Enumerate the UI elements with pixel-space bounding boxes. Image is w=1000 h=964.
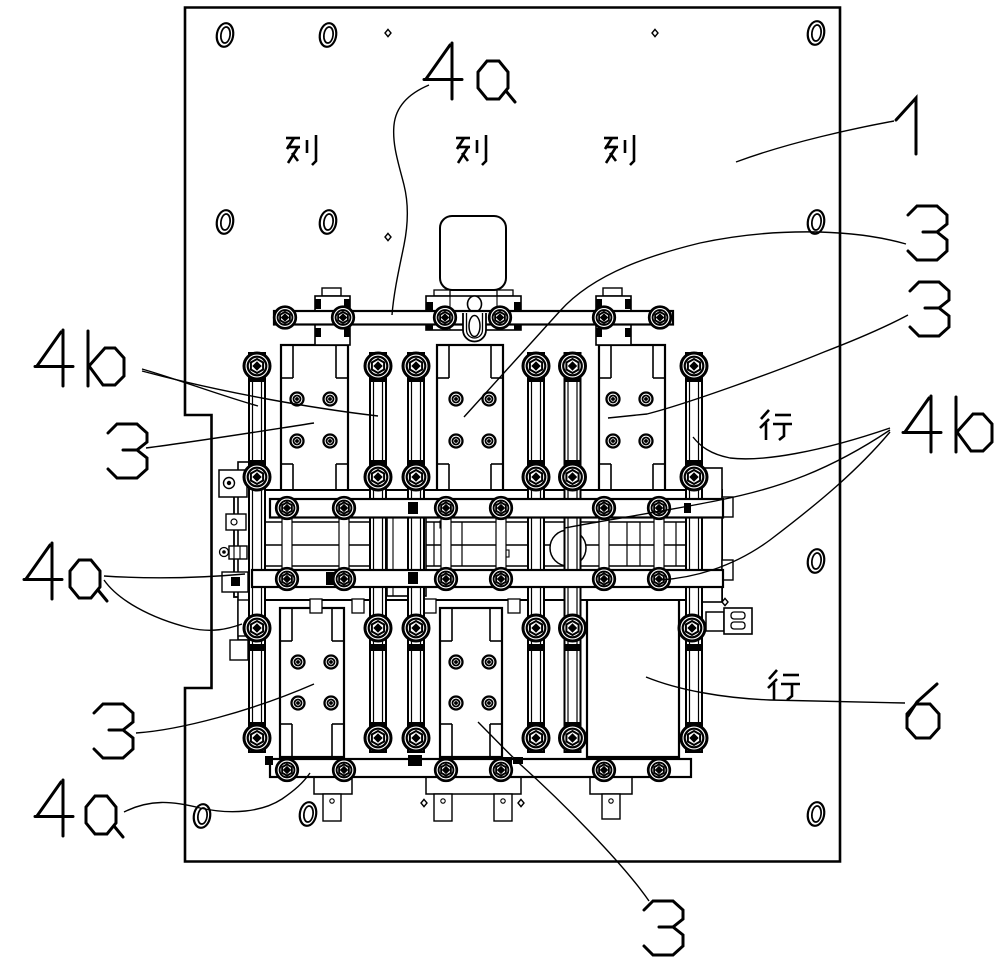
screw head (607, 393, 620, 406)
label 3 second (910, 282, 949, 336)
bolt fastener (593, 568, 615, 590)
bolt fastener (490, 497, 512, 519)
bolt 4a fastener (681, 464, 707, 490)
bolt fastener (434, 307, 456, 329)
leaders to 4b left (142, 369, 258, 406)
bolt 4a fastener (365, 615, 391, 641)
bolt fastener (435, 497, 457, 519)
leaders to 4a left (104, 574, 245, 578)
bottom bracket right (590, 777, 632, 819)
small stop blocks (440, 521, 509, 557)
screw head (640, 435, 653, 448)
label 3 first (908, 206, 947, 260)
leader to 3 lower-left (136, 684, 314, 733)
plate hole (807, 210, 825, 234)
block 6 (587, 589, 679, 757)
lead screw nose (463, 313, 486, 342)
screw head (324, 435, 337, 448)
small locating mark (722, 598, 728, 605)
screw head (324, 393, 337, 406)
leaders to 4b right (693, 428, 890, 459)
bolt 4a fastener (523, 725, 549, 751)
bolt fastener (649, 307, 671, 329)
label 4a left (24, 543, 62, 599)
screw head (607, 435, 620, 448)
plate hole (319, 23, 337, 47)
bolt fastener (648, 497, 670, 519)
bolt fastener (593, 759, 615, 781)
bolt fastener (648, 568, 670, 590)
leader to 4a top (392, 85, 429, 315)
screw head (292, 697, 305, 710)
bottom bracket middle (426, 777, 521, 821)
bolt fastener (274, 307, 296, 329)
motor body (440, 216, 506, 290)
screw head (325, 656, 338, 669)
vertical rail 4b x=257 (249, 353, 265, 752)
base plate 1 (185, 8, 840, 862)
bolt 4a fastener (403, 353, 429, 379)
carriage right cap (694, 468, 733, 602)
carriage hole (550, 530, 586, 566)
top row rail 4a (274, 311, 673, 325)
bolt 4a fastener (244, 353, 270, 379)
bolt fastener (489, 307, 511, 329)
leader to 3 left (146, 423, 314, 448)
bolt 4a fastener (365, 353, 391, 379)
bolt 4a fastener (681, 353, 707, 379)
mounting plate 3 (P2) (437, 345, 503, 497)
plate hole (319, 210, 337, 234)
plate hole (216, 210, 234, 234)
bolt 4a fastener (560, 725, 586, 751)
junction marks (265, 502, 691, 766)
character xing (row) (768, 670, 800, 700)
bottom bracket left (314, 777, 352, 821)
label 6 (907, 684, 939, 738)
upper middle rail 4a (270, 499, 723, 518)
bolt 4a fastener (679, 615, 705, 641)
bolt fastener (333, 568, 355, 590)
plate hole (807, 802, 825, 826)
leader to 3 (second) (608, 315, 908, 418)
screw head (640, 393, 653, 406)
screw head (483, 656, 496, 669)
bolt fastener (435, 568, 457, 590)
plate hole (807, 21, 825, 45)
label 4a top (424, 43, 462, 99)
screw head (450, 435, 463, 448)
leader to 4a bottom (124, 773, 310, 812)
carriage slide body (234, 462, 722, 640)
left tab (226, 514, 246, 530)
lower middle rail 4a (252, 570, 723, 587)
vertical rail 4b x=572.5 (565, 353, 581, 752)
top rail bracket left (315, 288, 350, 345)
label 3 left (108, 424, 147, 478)
bolt fastener (593, 307, 615, 329)
screw head (483, 697, 496, 710)
screw head (292, 656, 305, 669)
connector plug (706, 608, 752, 634)
bolt fastener (332, 307, 354, 329)
bolt 4a fastener (244, 615, 270, 641)
label 3 bottom (644, 901, 683, 955)
label 1 (896, 98, 916, 154)
plate hole (299, 802, 317, 826)
top rail bracket right (596, 288, 631, 345)
bolt fastener (276, 497, 298, 519)
bolt fastener (490, 759, 512, 781)
screw head (450, 656, 463, 669)
vertical rail 4b x=378 (370, 353, 386, 752)
left lower tab 4a (222, 572, 248, 592)
bolt fastener (333, 497, 355, 519)
guide posts (282, 517, 664, 571)
bolt 4a fastener (560, 615, 586, 641)
bolt fastener (333, 759, 355, 781)
mounting plate 3 (L2) (440, 608, 502, 757)
small locating mark (421, 799, 427, 806)
leader to 1 (736, 121, 894, 162)
screw head (450, 697, 463, 710)
bolt fastener (276, 568, 298, 590)
character xing (row) (760, 410, 792, 440)
lower plate brackets (310, 599, 520, 613)
leader to 3 bottom (478, 722, 649, 901)
bolt 4a fastener (523, 464, 549, 490)
plate hole (193, 804, 211, 828)
bolt 4a fastener (365, 464, 391, 490)
bolt 4a fastener (560, 353, 586, 379)
small locating mark (385, 233, 391, 240)
bolt 4a fastener (365, 725, 391, 751)
character lie (column) (604, 135, 634, 165)
plate hole (807, 549, 825, 573)
small locating mark (385, 29, 391, 36)
screw head (450, 393, 463, 406)
character lie (column) (456, 135, 486, 165)
plate hole (216, 23, 234, 47)
small locating mark (518, 799, 524, 806)
bolt 4a fastener (244, 725, 270, 751)
bolt fastener (276, 759, 298, 781)
bolt 4a fastener (403, 615, 429, 641)
bolt fastener (435, 759, 457, 781)
leader to 3 (first) (464, 232, 906, 417)
label 4a bottom (35, 780, 73, 836)
bolt 4a fastener (403, 464, 429, 490)
vertical rail 4b x=536 (528, 353, 544, 752)
bottom row rail 4a (270, 759, 691, 777)
vertical rail 4b x=416 (408, 353, 424, 752)
motor mount bracket (426, 290, 521, 330)
bolt 4a fastener (403, 725, 429, 751)
bolt 4a fastener (560, 464, 586, 490)
screw head (483, 435, 496, 448)
small locating mark (652, 29, 658, 36)
left screw (220, 546, 248, 559)
character lie (column) (286, 135, 316, 165)
mounting plate 3 (P1) (281, 345, 348, 497)
bolt fastener (648, 759, 670, 781)
mounting plate 3 (L1) (280, 608, 344, 757)
bolt 4a fastener (523, 615, 549, 641)
screw head (325, 697, 338, 710)
label 4b left (35, 330, 73, 386)
bolt fastener (490, 568, 512, 590)
left lower bracket (230, 600, 254, 660)
left clamp block 4a (219, 470, 247, 497)
bolt 4a fastener (681, 725, 707, 751)
carriage centre block (387, 515, 426, 596)
bolt 4a fastener (244, 464, 270, 490)
screw head (291, 435, 304, 448)
screw head (483, 393, 496, 406)
lead screw top (468, 296, 482, 312)
label 4b right (903, 396, 941, 452)
bolt fastener (593, 497, 615, 519)
mounting plate 3 (P3) (599, 345, 665, 497)
vertical rail 4b x=694 (686, 353, 702, 752)
label 3 lower-left (94, 704, 133, 758)
screw head (291, 393, 304, 406)
bolt 4a fastener (523, 353, 549, 379)
leader to 6 (646, 677, 905, 703)
